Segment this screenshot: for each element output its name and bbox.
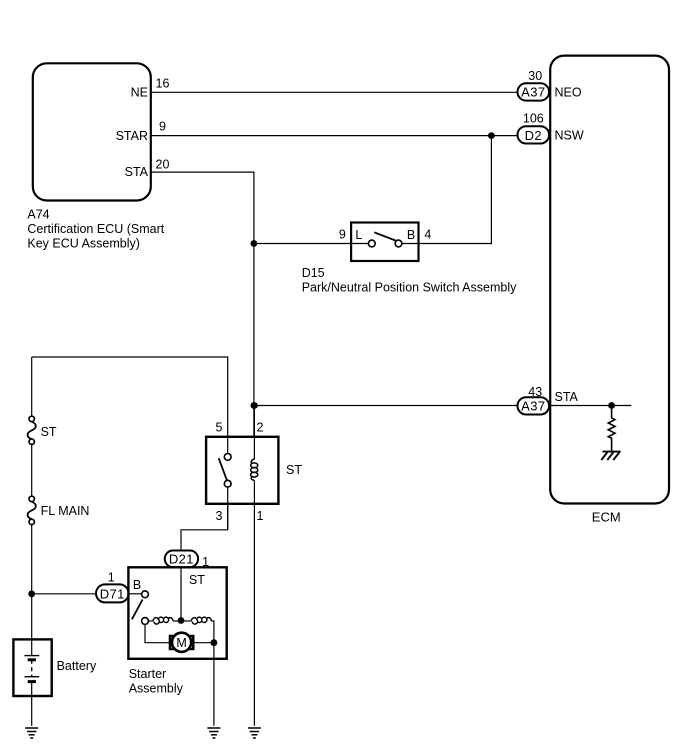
svg-text:D2: D2 — [525, 128, 542, 143]
D15 switch box — [351, 223, 418, 262]
svg-text:D21: D21 — [169, 552, 194, 567]
fusible link FL MAIN — [29, 496, 34, 501]
svg-text:1: 1 — [108, 571, 115, 585]
svg-text:A37: A37 — [521, 399, 545, 414]
ECM box — [550, 56, 669, 504]
junction node coil center — [178, 617, 185, 624]
svg-text:3: 3 — [216, 509, 223, 523]
wire to D71 — [32, 593, 96, 595]
starter switch blade — [132, 600, 143, 620]
svg-text:STAR: STAR — [116, 129, 148, 143]
fuse ST — [29, 416, 34, 421]
svg-text:B: B — [407, 228, 415, 242]
ground relay coil — [248, 728, 261, 738]
svg-text:ECM: ECM — [592, 509, 621, 524]
wire NSW branch down to D15 — [419, 136, 492, 244]
junction node relay pin2/STA — [251, 402, 258, 409]
connector oval D71 — [96, 584, 129, 602]
svg-text:43: 43 — [528, 385, 542, 399]
junction node on NSW wire — [488, 132, 495, 139]
svg-text:A37: A37 — [521, 85, 545, 100]
wire relay pin3 to D21 — [181, 504, 228, 551]
wire D21 into starter — [180, 567, 182, 621]
svg-text:ST: ST — [286, 463, 302, 477]
svg-text:A74: A74 — [27, 208, 49, 222]
svg-text:106: 106 — [523, 112, 544, 126]
D15 switch blade — [374, 232, 396, 240]
ground battery — [25, 728, 38, 738]
ECU A74 box — [33, 63, 151, 200]
junction node STA/D15 — [251, 240, 258, 247]
svg-text:Battery: Battery — [57, 659, 97, 673]
svg-text:D71: D71 — [100, 586, 125, 601]
ground starter motor — [207, 728, 220, 738]
svg-text:5: 5 — [216, 421, 223, 435]
wire STA from ECU — [151, 172, 254, 437]
svg-text:30: 30 — [528, 69, 542, 83]
svg-text:STA: STA — [555, 390, 579, 404]
relay switch — [227, 437, 229, 453]
junction node STA/ECM — [251, 402, 258, 409]
svg-text:D15: D15 — [302, 266, 325, 280]
svg-text:NE: NE — [131, 86, 148, 100]
battery box — [13, 639, 51, 696]
svg-text:NSW: NSW — [555, 129, 584, 143]
connector oval A37 (STA pin 43) — [518, 397, 550, 414]
wire STA to D15 — [254, 243, 351, 245]
starter coil left — [148, 620, 153, 622]
wire inside ECM from STA — [549, 405, 632, 407]
wire lower contact to motor — [145, 624, 170, 642]
svg-text:ST: ST — [189, 573, 205, 587]
svg-text:4: 4 — [424, 228, 431, 242]
starter relay box ST — [206, 437, 278, 504]
svg-text:2: 2 — [257, 421, 264, 435]
svg-text:20: 20 — [156, 157, 170, 171]
wire STAR to NSW — [151, 135, 519, 137]
starter coil right — [181, 620, 191, 622]
starter switch contact B — [142, 591, 149, 598]
chassis ground inside ECM — [601, 452, 620, 460]
wire NE — [151, 91, 519, 93]
svg-text:1: 1 — [257, 509, 264, 523]
wire to battery — [31, 525, 33, 640]
wire between fuses — [31, 444, 33, 496]
svg-text:ST: ST — [41, 425, 57, 439]
top-left feed wire — [32, 357, 228, 437]
svg-text:9: 9 — [159, 120, 166, 134]
starter assembly box — [128, 567, 226, 659]
svg-text:9: 9 — [339, 228, 346, 242]
resistor inside ECM — [608, 406, 615, 452]
svg-text:Certification ECU (Smart: Certification ECU (Smart — [27, 222, 164, 236]
svg-text:16: 16 — [156, 77, 170, 91]
svg-text:Park/Neutral Position Switch A: Park/Neutral Position Switch Assembly — [302, 281, 517, 295]
connector oval D21 — [165, 551, 198, 568]
svg-text:Starter: Starter — [129, 667, 167, 681]
svg-text:L: L — [355, 228, 362, 242]
junction node resistor — [608, 402, 615, 409]
wire motor to ground — [193, 642, 214, 644]
wire D71 into starter — [128, 593, 141, 595]
connector oval A37 (NEO pin 30) — [518, 83, 550, 100]
svg-text:STA: STA — [125, 165, 149, 179]
motor M — [172, 633, 191, 652]
starter switch lower contact — [142, 618, 149, 625]
junction node motor/ground — [211, 639, 218, 646]
svg-text:FL MAIN: FL MAIN — [41, 504, 90, 518]
D15 switch contacts — [351, 243, 368, 245]
svg-text:B: B — [133, 578, 141, 592]
svg-text:Key ECU Assembly): Key ECU Assembly) — [27, 237, 140, 251]
junction node D71 branch — [28, 590, 35, 597]
battery symbol — [31, 639, 33, 655]
svg-text:Assembly: Assembly — [129, 682, 184, 696]
connector oval D2 (NSW pin 106) — [518, 126, 550, 143]
left vertical battery feed — [31, 357, 33, 416]
svg-text:M: M — [176, 636, 186, 650]
svg-text:NEO: NEO — [555, 85, 582, 99]
wire STA to ECM — [254, 405, 519, 407]
relay coil — [253, 406, 255, 460]
